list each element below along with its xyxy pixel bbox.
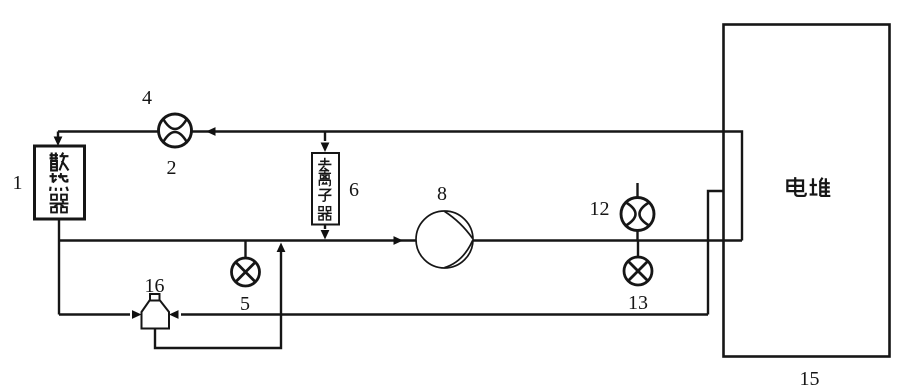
wire: valve 12 top stub <box>636 183 638 198</box>
valve 13 (circle-X) <box>624 257 652 285</box>
wire: valve 5 stub <box>244 241 246 258</box>
wire: radiator bottom drop <box>58 220 60 315</box>
svg-text:5: 5 <box>240 293 250 315</box>
thermostat valve 2 (circle with facing arcs) <box>159 114 192 147</box>
wire: lower-left line into valve 16 <box>59 313 130 315</box>
arrow into radiator top <box>54 137 63 147</box>
valve 5 (circle-X) <box>232 258 260 286</box>
deionizer box 6 <box>312 153 339 225</box>
arrow deionizer outlet into main line <box>321 230 330 240</box>
wire: top line from radiator to stack internal drop <box>58 132 742 241</box>
pump 8 <box>416 211 473 268</box>
wire: valve 13 stub <box>637 241 639 257</box>
arrow into valve 2 (pointing left) <box>206 127 216 136</box>
wire: main coolant line (left of pump) <box>59 239 416 241</box>
radiator box 1 <box>35 146 85 219</box>
valve 12 (circle with facing arcs, vertical) <box>621 198 654 231</box>
arrow into valve 16 right port <box>169 310 179 319</box>
arrow into valve 16 left port <box>132 310 142 319</box>
arrow on main line before pump <box>394 236 404 245</box>
wire: deionizer outlet stub <box>324 225 326 230</box>
wire: radiator top inlet stub <box>57 132 59 138</box>
stack text 电堆 <box>787 177 830 196</box>
svg-text:8: 8 <box>437 183 447 205</box>
deionizer text 去离子器 (vertical) <box>318 158 332 220</box>
svg-text:2: 2 <box>167 157 177 179</box>
wire: deionizer inlet stub <box>324 132 326 142</box>
wire: valve 12 to main line stub <box>636 231 638 241</box>
wire: main coolant line (right of pump) <box>473 239 742 241</box>
svg-text:13: 13 <box>628 292 648 314</box>
wire: stack return riser <box>708 191 723 315</box>
wire: stack return line to valve 16 <box>181 313 708 315</box>
svg-text:16: 16 <box>145 275 165 297</box>
wire: valve16 outlet loop up to main line <box>155 252 281 348</box>
three-way valve 16 <box>142 294 170 329</box>
arrow bypass up into main line <box>277 243 286 253</box>
svg-text:1: 1 <box>13 172 23 194</box>
svg-text:12: 12 <box>590 198 610 220</box>
radiator text 散热器 (vertical) <box>50 153 69 213</box>
svg-text:15: 15 <box>800 368 820 390</box>
svg-text:6: 6 <box>349 179 359 201</box>
svg-text:4: 4 <box>142 87 152 109</box>
arrow into deionizer top <box>321 143 330 153</box>
fuel cell stack box 15 <box>724 25 890 357</box>
